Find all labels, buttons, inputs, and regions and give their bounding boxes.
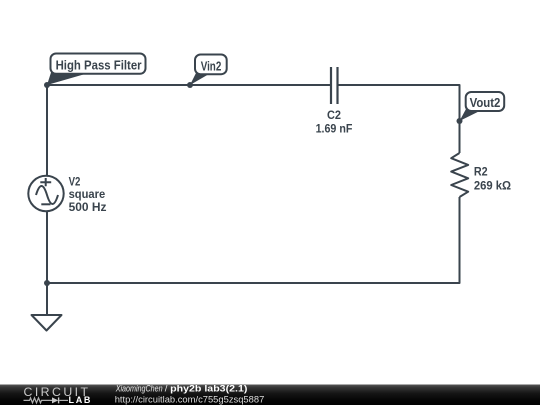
svg-text:Vout2: Vout2 xyxy=(470,95,501,110)
svg-text:C2: C2 xyxy=(327,108,341,122)
footer text line 1 xyxy=(115,384,247,395)
svg-text:/: / xyxy=(165,384,168,395)
label High Pass Filter xyxy=(47,54,146,86)
label Vout2 xyxy=(460,92,505,121)
wire top from node A to capacitor left plate xyxy=(47,84,330,86)
node Vin2 xyxy=(187,82,193,88)
footer text line 2 xyxy=(115,394,265,405)
voltage source V2 xyxy=(28,174,106,214)
footer CircuitLab logo xyxy=(24,385,91,405)
wire from capacitor right plate to top-right corner then down to Vout node xyxy=(338,85,460,153)
svg-text:phy2b lab3(2.1): phy2b lab3(2.1) xyxy=(170,384,247,395)
svg-text:XiaomingChen: XiaomingChen xyxy=(115,384,163,395)
resistor R2 xyxy=(451,153,511,197)
footer bar xyxy=(0,385,540,405)
svg-text:High Pass Filter: High Pass Filter xyxy=(56,57,142,72)
svg-text:R2: R2 xyxy=(474,165,488,179)
node Vout2 xyxy=(457,118,463,124)
svg-text:Vin2: Vin2 xyxy=(201,58,222,73)
wire left vertical from node A down to source top xyxy=(46,85,48,176)
svg-text:LAB: LAB xyxy=(69,395,91,405)
wire ground stem xyxy=(46,283,48,315)
svg-text:269 kΩ: 269 kΩ xyxy=(474,178,512,192)
wire bottom rail from resistor bottom to ground junction xyxy=(47,197,460,283)
svg-text:1.69 nF: 1.69 nF xyxy=(316,122,353,136)
label Vin2 xyxy=(190,55,227,86)
capacitor C2 xyxy=(316,67,353,136)
svg-text:http://circuitlab.com/c755g5zs: http://circuitlab.com/c755g5zsq5887 xyxy=(115,394,265,405)
ground xyxy=(32,315,62,331)
wire from source bottom down to bottom rail xyxy=(46,211,48,283)
node A (High Pass Filter) xyxy=(44,82,50,88)
node ground junction xyxy=(44,280,50,286)
svg-text:square: square xyxy=(69,187,106,201)
svg-text:500 Hz: 500 Hz xyxy=(69,200,107,214)
